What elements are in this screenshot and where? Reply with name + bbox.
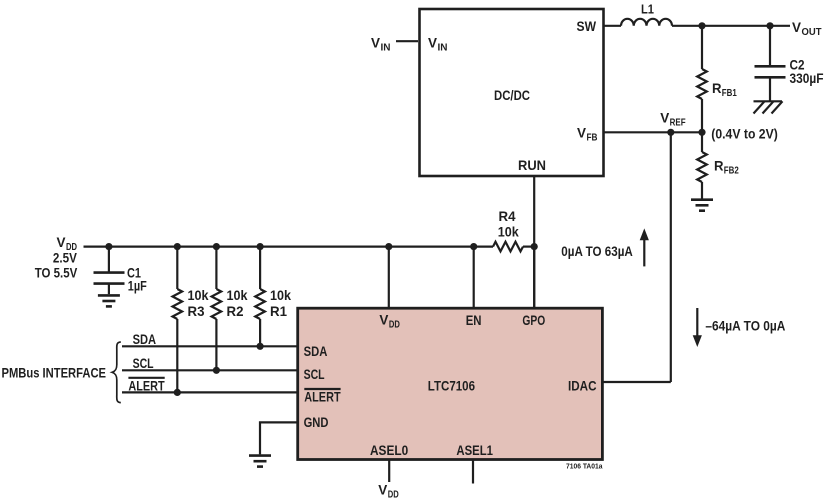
svg-text:V: V: [577, 124, 587, 140]
svg-text:DC/DC: DC/DC: [494, 87, 530, 103]
svg-text:R2: R2: [227, 303, 244, 319]
svg-text:SCL: SCL: [304, 366, 325, 382]
svg-text:330µF: 330µF: [790, 70, 824, 86]
svg-text:SCL: SCL: [133, 355, 154, 371]
svg-text:FB: FB: [587, 132, 598, 143]
svg-text:DD: DD: [388, 490, 399, 500]
svg-text:0µA TO 63µA: 0µA TO 63µA: [561, 243, 633, 259]
svg-text:V: V: [379, 311, 389, 327]
svg-text:10k: 10k: [227, 287, 248, 303]
svg-text:SW: SW: [577, 18, 597, 34]
svg-text:10k: 10k: [270, 287, 291, 303]
svg-text:ASEL0: ASEL0: [370, 442, 408, 458]
svg-text:R: R: [714, 158, 724, 174]
svg-text:GND: GND: [304, 414, 329, 430]
svg-text:TO 5.5V: TO 5.5V: [35, 265, 78, 281]
svg-text:R: R: [712, 80, 722, 96]
svg-text:1µF: 1µF: [128, 278, 147, 294]
svg-text:V: V: [792, 19, 802, 35]
svg-text:IN: IN: [381, 42, 391, 53]
svg-text:GPO: GPO: [522, 312, 545, 328]
svg-text:ALERT: ALERT: [304, 389, 341, 405]
svg-text:V: V: [660, 109, 670, 125]
svg-text:R4: R4: [499, 208, 516, 224]
svg-text:V: V: [57, 234, 67, 250]
svg-text:RUN: RUN: [518, 157, 546, 173]
svg-text:–64µA TO 0µA: –64µA TO 0µA: [705, 318, 785, 334]
svg-text:V: V: [378, 482, 388, 498]
svg-text:SDA: SDA: [304, 343, 328, 359]
svg-text:R1: R1: [270, 303, 287, 319]
svg-text:2.5V: 2.5V: [53, 250, 78, 266]
svg-text:(0.4V to 2V): (0.4V to 2V): [711, 126, 778, 142]
svg-text:SDA: SDA: [133, 331, 157, 347]
svg-text:REF: REF: [670, 117, 686, 128]
svg-text:IN: IN: [438, 42, 448, 53]
svg-text:DD: DD: [389, 319, 400, 330]
svg-text:ALERT: ALERT: [128, 377, 165, 393]
svg-text:7106 TA01a: 7106 TA01a: [566, 463, 603, 470]
svg-text:FB1: FB1: [722, 88, 737, 99]
svg-text:10k: 10k: [498, 223, 519, 239]
svg-text:IDAC: IDAC: [568, 378, 597, 394]
svg-text:R3: R3: [188, 303, 205, 319]
svg-text:L1: L1: [641, 1, 654, 16]
svg-text:LTC7106: LTC7106: [428, 378, 475, 394]
svg-text:FB2: FB2: [724, 166, 739, 177]
svg-text:V: V: [371, 34, 381, 50]
svg-text:V: V: [428, 34, 438, 50]
svg-text:10k: 10k: [188, 287, 209, 303]
svg-text:EN: EN: [466, 312, 482, 328]
svg-text:PMBus INTERFACE: PMBus INTERFACE: [2, 364, 107, 380]
svg-text:OUT: OUT: [802, 27, 822, 38]
svg-text:ASEL1: ASEL1: [456, 442, 493, 458]
